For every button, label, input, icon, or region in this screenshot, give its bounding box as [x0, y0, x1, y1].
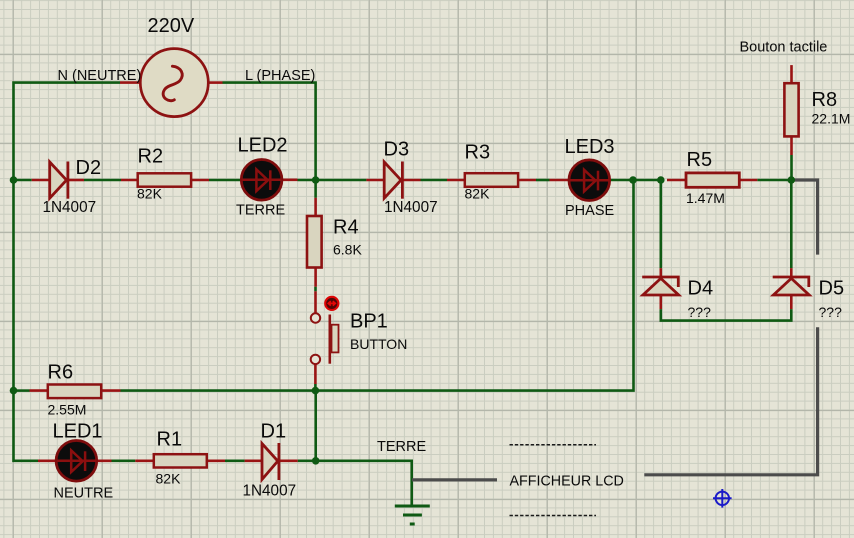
- svg-text:R5: R5: [687, 149, 713, 171]
- pin D5 bottom: [790, 295, 793, 309]
- resistor R4: [307, 216, 322, 268]
- svg-text:???: ???: [688, 304, 712, 320]
- wire row180 c: [209, 179, 240, 182]
- svg-text:1N4007: 1N4007: [243, 483, 297, 500]
- svg-text:R8: R8: [812, 89, 838, 111]
- wire neutre top-left: [14, 83, 121, 180]
- pin R2 left: [121, 179, 139, 182]
- svg-text:N (NEUTRE): N (NEUTRE): [58, 68, 142, 84]
- svg-text:D3: D3: [384, 139, 410, 161]
- node left-row180: [10, 176, 18, 184]
- node R5 right: [788, 176, 796, 184]
- pin R3 right: [518, 179, 537, 182]
- wire gray from R5 junction to right and down: [792, 180, 818, 255]
- wire row390 left: [14, 389, 30, 392]
- dashed line top of AFFICHEUR LCD: [510, 444, 597, 446]
- pin R6 left: [30, 389, 49, 392]
- pin R3 left: [447, 179, 466, 182]
- resistor R1: [154, 454, 207, 467]
- wire phase top to junction: [223, 83, 316, 180]
- svg-text:D2: D2: [76, 157, 102, 179]
- node LED2 right: [312, 176, 320, 184]
- wire row180 b: [84, 179, 121, 182]
- pin D2 anode: [32, 179, 50, 182]
- pin D2 cathode: [69, 179, 84, 182]
- wire R4 to BP1: [314, 287, 317, 292]
- wire row460 junction to ground: [316, 461, 412, 505]
- wire row460 R1 to D1: [225, 459, 245, 462]
- svg-text:L (PHASE): L (PHASE): [245, 68, 315, 84]
- pin D4 top: [659, 268, 662, 277]
- svg-text:NEUTRE: NEUTRE: [54, 486, 114, 502]
- pin LED1 through: [38, 459, 112, 462]
- svg-text:R6: R6: [48, 362, 74, 384]
- svg-text:???: ???: [819, 304, 843, 320]
- wire row180 h: [611, 179, 633, 182]
- dashed line bottom of AFFICHEUR LCD: [510, 515, 597, 517]
- wire junction180 to R4: [314, 180, 317, 198]
- node LED3 right B: [657, 176, 665, 184]
- wire row180 f: [421, 179, 448, 182]
- node BP1 bottom row390: [312, 387, 320, 395]
- svg-text:22.1M: 22.1M: [812, 111, 851, 127]
- diode D5: [773, 277, 810, 295]
- svg-text:82K: 82K: [137, 186, 163, 202]
- pin D3 anode: [366, 179, 384, 182]
- pin R5 right: [739, 179, 757, 182]
- svg-text:LED2: LED2: [238, 135, 288, 157]
- wire D1-junction up to row390: [314, 391, 317, 461]
- wire left vertical mid: [12, 180, 15, 391]
- svg-text:PHASE: PHASE: [565, 203, 614, 219]
- pin R1 left: [135, 459, 154, 462]
- node LED3 right A: [629, 176, 637, 184]
- pin D3 cathode: [404, 179, 421, 182]
- node left-row390: [10, 387, 18, 395]
- wire D4 top: [659, 181, 662, 268]
- wire gray from ground riser to AFFICHEUR LCD: [412, 478, 497, 481]
- svg-text:TERRE: TERRE: [377, 439, 426, 455]
- pin R2 right: [191, 179, 210, 182]
- wire row180 a: [14, 179, 32, 182]
- wire D5 top: [790, 181, 793, 268]
- pin R4 top: [314, 198, 317, 216]
- svg-text:D1: D1: [261, 421, 287, 443]
- pin source left: [120, 81, 140, 84]
- resistor R8: [784, 83, 798, 136]
- svg-text:220V: 220V: [148, 15, 195, 37]
- LED1: [56, 441, 97, 482]
- pin BP1 top: [314, 291, 317, 313]
- diode D1: [262, 443, 279, 480]
- resistor R5: [686, 173, 739, 187]
- red handle marker on BP1: [325, 297, 338, 310]
- wire gray right vertical to bottom horizontal: [644, 327, 817, 475]
- svg-text:2.55M: 2.55M: [48, 402, 87, 418]
- svg-text:82K: 82K: [156, 471, 182, 487]
- pin D4 bottom: [659, 295, 662, 309]
- svg-text:R2: R2: [138, 146, 164, 168]
- node D1 right row460: [312, 457, 320, 465]
- LED3: [569, 160, 610, 201]
- wire D4-D5 bottom link: [661, 309, 792, 321]
- GRAY LCD WIRES: [412, 180, 818, 480]
- pin source right: [209, 81, 223, 84]
- pin R6 right: [101, 389, 121, 392]
- blue origin marker: [713, 489, 732, 508]
- pin R1 right: [207, 459, 226, 462]
- pin D5 top: [790, 268, 793, 277]
- LED2: [241, 160, 282, 201]
- svg-text:LED1: LED1: [53, 421, 103, 443]
- svg-text:AFFICHEUR LCD: AFFICHEUR LCD: [510, 474, 624, 490]
- svg-text:TERRE: TERRE: [236, 203, 285, 219]
- pin R8 bottom: [790, 136, 793, 155]
- pin R4 bottom: [314, 268, 317, 287]
- pin R5 left: [667, 179, 686, 182]
- svg-text:BP1: BP1: [350, 311, 388, 333]
- pin LED3 through: [550, 179, 612, 182]
- pin BP1 bottom: [314, 364, 317, 384]
- wire row180 j: [757, 179, 791, 182]
- MAROON PINS: [30, 65, 792, 461]
- wire BP1 to row390: [314, 384, 317, 391]
- diode D3: [384, 162, 402, 199]
- svg-text:1N4007: 1N4007: [43, 199, 97, 216]
- wire R8 bottom: [790, 155, 793, 180]
- resistor R2: [138, 173, 191, 186]
- svg-text:6.8K: 6.8K: [333, 242, 362, 258]
- svg-text:R4: R4: [333, 217, 359, 239]
- GREEN WIRES: [14, 83, 792, 505]
- wire row180 d: [298, 179, 316, 182]
- resistor R6: [48, 385, 101, 399]
- svg-text:R1: R1: [157, 429, 183, 451]
- svg-text:LED3: LED3: [565, 136, 615, 158]
- svg-text:D5: D5: [819, 278, 845, 300]
- ground TERRE symbol: [395, 506, 430, 524]
- wire row460 LED1 gap: [112, 459, 136, 462]
- svg-text:82K: 82K: [465, 186, 491, 202]
- wire row460 D1 to junction: [298, 459, 316, 462]
- diode D4: [642, 277, 679, 295]
- pin R8 top: [790, 65, 793, 83]
- pin D1 cathode: [280, 459, 298, 462]
- pin D1 anode: [245, 459, 262, 462]
- wire left vertical bottom to LED1: [14, 391, 39, 461]
- svg-text:BUTTON: BUTTON: [350, 336, 407, 352]
- diode D2: [50, 162, 68, 199]
- svg-text:D4: D4: [688, 278, 714, 300]
- wire row180 g: [536, 179, 550, 182]
- resistor R3: [465, 173, 518, 187]
- svg-text:R3: R3: [465, 142, 491, 164]
- pin LED2 through: [240, 179, 298, 182]
- svg-text:1N4007: 1N4007: [384, 199, 438, 216]
- wire row390 long with riser to junction: [121, 181, 634, 391]
- wire row180 e: [316, 179, 367, 182]
- source V1 220V: [140, 49, 208, 117]
- button BP1: [311, 313, 339, 364]
- svg-text:1.47M: 1.47M: [686, 190, 725, 206]
- wire row180 i: [633, 179, 661, 182]
- svg-text:Bouton tactile: Bouton tactile: [740, 40, 828, 56]
